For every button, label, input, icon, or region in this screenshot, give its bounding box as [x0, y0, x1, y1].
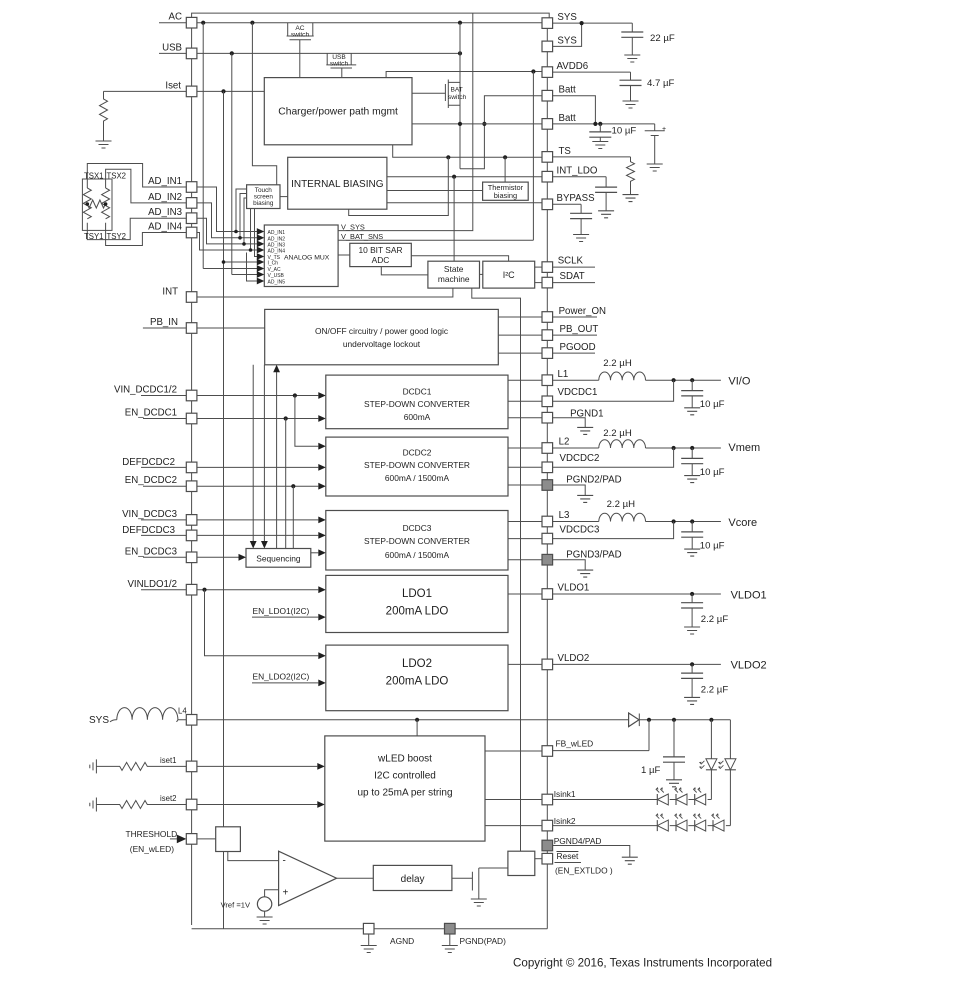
wire Vref to comparator plus: [265, 890, 279, 897]
node L1a: [672, 378, 676, 382]
transistor BAT switch: [412, 23, 460, 169]
node batt2: [598, 122, 602, 126]
svg-text:Charger/power path mgmt: Charger/power path mgmt: [278, 107, 398, 118]
wire TS net from charger: [393, 145, 542, 158]
node vin12: [293, 393, 297, 397]
svg-text:STEP-DOWN CONVERTER: STEP-DOWN CONVERTER: [364, 460, 470, 470]
wire THRESHOLD to box: [197, 838, 216, 840]
pin PGND2/PAD: [542, 480, 553, 491]
capacitor 22uF: [631, 23, 633, 32]
wire DCDC3 to VDCDC3: [508, 538, 542, 540]
svg-text:SDAT: SDAT: [560, 271, 585, 282]
wire boost rail: [639, 719, 730, 721]
svg-text:AD_IN2: AD_IN2: [268, 236, 286, 242]
wire PB_OUT: [498, 334, 597, 336]
wire wLED to Isink1 pin: [485, 799, 542, 801]
svg-text:USB: USB: [162, 42, 182, 53]
svg-text:machine: machine: [438, 274, 470, 284]
inductor L1: [599, 372, 646, 380]
LED S1c: [693, 787, 706, 805]
wire SYS out: [553, 23, 633, 46]
pin Iset: [186, 86, 197, 97]
svg-text:Sequencing: Sequencing: [256, 554, 301, 564]
svg-text:2.2 µH: 2.2 µH: [607, 499, 636, 510]
wire PGND2 out: [553, 485, 586, 495]
wire L4 to diode: [178, 719, 629, 721]
box state machine: [428, 261, 480, 288]
capacitor 2.2uF ldo1: [691, 594, 693, 603]
svg-text:STEP-DOWN CONVERTER: STEP-DOWN CONVERTER: [364, 399, 470, 409]
ground iset2 ext: [90, 798, 97, 812]
svg-text:EN_DCDC3: EN_DCDC3: [125, 546, 177, 557]
ground Iset: [96, 141, 112, 148]
svg-text:Vmem: Vmem: [728, 442, 760, 454]
wire TS to internal biasing: [349, 157, 449, 215]
wire I2C to SCLK: [535, 266, 542, 268]
wire LDO2 to VLDO2: [508, 663, 542, 665]
node AC-203: [201, 21, 205, 25]
wire AC net: [159, 22, 542, 24]
wire PGND1 out: [553, 418, 586, 428]
svg-text:VIN_DCDC3: VIN_DCDC3: [122, 509, 177, 520]
pin PB_OUT: [542, 330, 553, 341]
svg-text:AGND: AGND: [390, 936, 414, 946]
wire EN_DCDC2 to seq: [292, 486, 294, 548]
wire touch biasing link: [280, 196, 288, 198]
svg-text:PB_OUT: PB_OUT: [560, 324, 599, 335]
wire EN_DCDC1 to seq: [285, 419, 287, 549]
node USB-460: [458, 51, 462, 55]
wire seq vert a: [252, 365, 254, 544]
wire BYPASS out: [553, 203, 582, 205]
battery cell: [645, 124, 665, 164]
svg-text:I²C: I²C: [503, 270, 515, 280]
pin INT: [186, 292, 197, 303]
pin FB_wLED: [542, 746, 553, 757]
svg-text:VDCDC2: VDCDC2: [560, 453, 600, 464]
box LDO2: [326, 645, 508, 711]
wire EN_DCDC2: [143, 485, 318, 487]
pin PGND3/PAD: [542, 554, 553, 565]
svg-text:PGND2/PAD: PGND2/PAD: [566, 475, 621, 486]
wire L2 out: [553, 447, 599, 449]
transistor AC switch: [287, 23, 314, 78]
node d1: [709, 718, 713, 722]
inductor L4: [110, 708, 178, 722]
wire biasing to BYPASS: [387, 202, 542, 204]
ground Q1: [471, 899, 487, 906]
pin TS: [542, 152, 553, 163]
capacitor 10uF dcdc3: [691, 522, 693, 532]
wire buffer to comparator minus: [228, 852, 279, 861]
wire DEFDCDC2: [141, 466, 318, 468]
pin VINLDO12: [186, 584, 197, 595]
wire VIN_DCDC3: [141, 519, 318, 521]
capacitor 1uF: [673, 720, 675, 757]
svg-text:SYS: SYS: [557, 12, 577, 23]
svg-text:PGND(PAD): PGND(PAD): [460, 936, 507, 946]
wire touch bias tap4: [250, 209, 252, 251]
wire FB_wLED: [553, 720, 649, 751]
wire Batt out: [553, 96, 655, 124]
wire VDCDC1 fb: [553, 380, 674, 401]
node touch-right: [104, 202, 108, 206]
capacitor 10uF batt: [599, 124, 601, 132]
wire biasing to INT_LDO: [387, 176, 542, 178]
wire DCDC1 to PGND1: [508, 417, 542, 419]
svg-text:BYPASS: BYPASS: [557, 193, 596, 204]
wire I2C to SDAT: [535, 282, 542, 284]
pin DEFDCDC3: [186, 530, 197, 541]
svg-text:600mA / 1500mA: 600mA / 1500mA: [385, 550, 450, 560]
svg-text:Iset: Iset: [165, 80, 181, 91]
wire V_AC vertical: [202, 23, 204, 269]
wire mux to ADC: [338, 254, 350, 256]
capacitor 10uF dcdc1: [691, 380, 693, 390]
node L3a: [672, 519, 676, 523]
svg-text:Copyright © 2016, Texas Instru: Copyright © 2016, Texas Instruments Inco…: [513, 957, 772, 970]
pin SYS2: [542, 41, 553, 52]
pin AC: [186, 17, 197, 28]
svg-text:I_Ch: I_Ch: [268, 261, 279, 267]
svg-text:-: -: [283, 856, 286, 867]
capacitor INT_LDO: [605, 177, 607, 187]
wire thermistor drop: [504, 157, 506, 182]
wire PGND4 out: [553, 846, 630, 858]
svg-text:VLDO2: VLDO2: [731, 660, 767, 672]
transistor Q1: [472, 868, 508, 899]
wire VDCDC2 fb: [553, 448, 674, 467]
pin AD_IN2: [186, 198, 197, 209]
pin Batt1: [542, 90, 553, 101]
svg-text:L2: L2: [559, 436, 570, 447]
pin EN_DCDC3: [186, 552, 197, 563]
svg-text:AD_IN4: AD_IN4: [148, 222, 183, 233]
svg-text:I2C controlled: I2C controlled: [374, 771, 436, 782]
pin Reset: [542, 853, 553, 864]
wire L4 to wLED box: [416, 720, 418, 736]
svg-text:BAT: BAT: [451, 87, 463, 94]
pin PGOOD: [542, 348, 553, 359]
svg-text:PGND3/PAD: PGND3/PAD: [566, 549, 621, 560]
pin VDCDC3: [542, 533, 553, 544]
svg-text:1 µF: 1 µF: [641, 765, 661, 776]
pin AD_IN3: [186, 213, 197, 224]
node L2b: [690, 446, 694, 450]
svg-text:Vcore: Vcore: [728, 517, 757, 529]
svg-text:VLDO2: VLDO2: [558, 653, 590, 664]
wire Isink1 row: [553, 799, 712, 801]
svg-text:Batt: Batt: [559, 85, 577, 96]
svg-text:SCLK: SCLK: [558, 256, 584, 267]
svg-text:10 µF: 10 µF: [700, 399, 725, 410]
pin Power_ON: [542, 312, 553, 323]
wire V_BAT_SNS vertical: [532, 72, 534, 241]
svg-text:200mA LDO: 200mA LDO: [386, 606, 449, 618]
pin EN_DCDC2: [186, 481, 197, 492]
wire sequencing out to DCDC3: [311, 552, 319, 554]
svg-text:Isink2: Isink2: [554, 816, 576, 826]
svg-text:ON/OFF circuitry / power good: ON/OFF circuitry / power good logic: [315, 326, 448, 336]
wire I_Ch bus vertical: [223, 91, 225, 928]
node tb3: [242, 242, 246, 246]
svg-text:Batt: Batt: [559, 113, 577, 124]
resistor touch horizontal: [87, 200, 105, 208]
pin INT_LDO: [542, 171, 553, 182]
svg-text:undervoltage lockout: undervoltage lockout: [343, 339, 421, 349]
pin L2: [542, 443, 553, 454]
svg-text:up to 25mA per string: up to 25mA per string: [357, 788, 452, 799]
svg-text:biasing: biasing: [494, 191, 517, 200]
ground Vref: [264, 911, 266, 917]
node SYS ext: [580, 21, 584, 25]
pin PGND(PAD): [445, 923, 456, 934]
svg-text:LDO2: LDO2: [402, 658, 432, 670]
svg-text:AVDD6: AVDD6: [557, 61, 589, 72]
wire EN_LDO2: [252, 682, 318, 684]
node tb2: [238, 236, 242, 240]
wire VIN_DCDC1/2: [141, 395, 318, 397]
wire VINLDO to LDO2: [205, 590, 319, 656]
wire DCDC1 to VDCDC1: [508, 400, 542, 402]
svg-text:Vref =1V: Vref =1V: [221, 901, 251, 910]
wire DEFDCDC3: [141, 534, 318, 536]
wire TSX2 to AD_IN2: [106, 169, 187, 203]
pin VIN_DCDC12: [186, 390, 197, 401]
svg-text:AD_IN1: AD_IN1: [148, 176, 182, 187]
capacitor 4.7uF: [630, 72, 632, 80]
wire L3 out: [553, 521, 599, 523]
wire Batt2 net: [412, 123, 542, 125]
svg-text:VI/O: VI/O: [728, 376, 750, 388]
box 10 BIT SAR ADC: [350, 243, 412, 266]
wire V_BAT_SNS: [338, 239, 533, 241]
resistor iset2: [96, 801, 186, 809]
box Touch screen biasing: [247, 185, 280, 209]
wire seq vert b: [263, 365, 265, 544]
pin SYS1: [542, 18, 553, 29]
wire iset1 to wLED: [197, 765, 317, 767]
svg-text:switch: switch: [291, 31, 310, 38]
wire L2 to Vmem: [646, 447, 721, 449]
wire Batt1 net: [460, 96, 542, 169]
pin BYPASS: [542, 199, 553, 210]
svg-text:DCDC2: DCDC2: [403, 448, 432, 458]
svg-text:TSX2: TSX2: [107, 171, 127, 180]
svg-text:THRESHOLD: THRESHOLD: [126, 829, 178, 839]
box ON/OFF circuitry: [265, 309, 499, 364]
svg-text:SYS: SYS: [557, 35, 577, 46]
svg-text:2.2 µF: 2.2 µF: [701, 684, 729, 695]
wire EN_LDO1: [252, 616, 318, 618]
wire DCDC3 to L3: [508, 521, 542, 523]
wire VIN to DCDC2: [295, 396, 318, 447]
resistor iset1: [96, 762, 186, 770]
box DCDC1: [326, 375, 508, 429]
node c1u: [672, 718, 676, 722]
box delay: [373, 865, 452, 890]
svg-text:+: +: [283, 888, 289, 899]
svg-text:2.2 µH: 2.2 µH: [603, 358, 632, 369]
svg-text:V_BAT_SNS: V_BAT_SNS: [341, 232, 383, 241]
wire iset2 to wLED: [197, 804, 317, 806]
wire Isink2 row: [553, 825, 731, 827]
wire VDCDC3 fb: [553, 522, 674, 539]
svg-text:Reset: Reset: [557, 851, 580, 861]
box Sequencing: [246, 549, 311, 568]
box DCDC3: [326, 511, 508, 571]
svg-text:AD_IN5: AD_IN5: [268, 280, 286, 286]
wire V_AC feed: [203, 268, 257, 270]
wire TSY1 to AD_IN3: [87, 218, 186, 239]
svg-text:PGND4/PAD: PGND4/PAD: [554, 836, 602, 846]
svg-text:switch: switch: [330, 61, 349, 68]
pin PB_IN: [186, 323, 197, 334]
wire USB net: [159, 52, 460, 54]
wire AD_IN3 to mux: [197, 218, 257, 244]
wire state machine to reset logic: [472, 288, 521, 851]
pin AD_IN1: [186, 182, 197, 193]
wire DCDC2 to VDCDC2: [508, 466, 542, 468]
box reset buffer: [508, 851, 535, 875]
pin iset2: [186, 799, 197, 810]
pin EN_DCDC1: [186, 413, 197, 424]
node vldo1: [690, 592, 694, 596]
svg-text:V_USB: V_USB: [268, 273, 285, 279]
svg-text:2.2 µF: 2.2 µF: [701, 614, 729, 625]
box DCDC2: [326, 437, 508, 496]
wire PGOOD: [498, 352, 595, 354]
LED D1: [710, 720, 712, 759]
resistor TS thermistor: [627, 157, 635, 195]
pin AVDD6: [542, 67, 553, 78]
svg-text:TSY1: TSY1: [84, 232, 104, 241]
svg-text:LDO1: LDO1: [402, 588, 432, 600]
pin VLDO2: [542, 659, 553, 670]
svg-text:22 µF: 22 µF: [650, 33, 675, 44]
svg-text:SYS: SYS: [89, 715, 109, 726]
node ICh: [222, 260, 226, 264]
node TS-448: [446, 155, 450, 159]
wire state machine feed vertical: [453, 177, 455, 262]
pin VLDO1: [542, 589, 553, 600]
wire EN_DCDC3: [143, 556, 239, 558]
LED S1b: [675, 787, 688, 805]
wire TS out: [553, 156, 631, 158]
node en1: [284, 416, 288, 420]
svg-text:EN_LDO1(I2C): EN_LDO1(I2C): [253, 606, 310, 616]
svg-text:10 BIT SAR: 10 BIT SAR: [358, 245, 402, 255]
pin USB: [186, 48, 197, 59]
wire state to I2C: [480, 273, 483, 275]
svg-text:ADC: ADC: [372, 255, 390, 265]
wire DCDC1 to L1: [508, 379, 542, 381]
pin arrows into mux: [257, 228, 265, 235]
svg-text:switch: switch: [448, 94, 467, 101]
ground PGND(PAD): [449, 934, 451, 946]
svg-text:VDCDC3: VDCDC3: [560, 524, 600, 535]
node AVDD6-533: [531, 69, 535, 73]
wire ADC to I2C: [411, 256, 508, 262]
wire V_TS feed: [255, 209, 258, 257]
svg-text:PGND1: PGND1: [570, 408, 603, 419]
wire Iset net: [104, 90, 265, 92]
LED S2d: [712, 813, 725, 831]
node vldo2: [690, 662, 694, 666]
pin Isink1: [542, 794, 553, 805]
svg-text:AD_IN3: AD_IN3: [268, 242, 286, 248]
svg-text:V_SYS: V_SYS: [341, 222, 365, 231]
svg-text:AD_IN1: AD_IN1: [268, 230, 286, 236]
wire L3 to Vcore: [646, 521, 721, 523]
inductor L3: [599, 513, 646, 521]
pin PGND1: [542, 412, 553, 423]
diode D3 boost: [629, 713, 639, 727]
node Batt-460: [458, 122, 462, 126]
svg-text:Power_ON: Power_ON: [559, 306, 606, 317]
wire AVDD6 out: [553, 71, 631, 73]
pin iset1: [186, 761, 197, 772]
svg-text:10 µF: 10 µF: [700, 540, 725, 551]
svg-text:VDCDC1: VDCDC1: [558, 387, 598, 398]
node L2a: [672, 446, 676, 450]
svg-text:ANALOG MUX: ANALOG MUX: [284, 255, 330, 262]
wire DCDC3 to PGND3: [508, 559, 542, 561]
LED S2a: [656, 813, 669, 831]
svg-text:600mA: 600mA: [404, 412, 431, 422]
touch screen outline box: [82, 179, 112, 230]
wire TSX1 to AD_IN1: [87, 164, 186, 189]
node fb: [647, 718, 651, 722]
pin L1: [542, 375, 553, 386]
node touch-left: [86, 202, 90, 206]
pin Batt2: [542, 119, 553, 130]
pin THRESHOLD: [186, 834, 197, 845]
box Thermistor biasing: [483, 182, 529, 200]
wire DCDC2 to L2: [508, 447, 542, 449]
svg-text:(EN_wLED): (EN_wLED): [130, 844, 174, 854]
wire L1 out: [553, 379, 599, 381]
IC bottom boundary: [192, 928, 548, 930]
svg-text:DCDC1: DCDC1: [403, 387, 432, 397]
svg-text:VLDO1: VLDO1: [731, 589, 767, 601]
svg-text:AD_IN4: AD_IN4: [268, 249, 286, 255]
wire Power_ON: [498, 316, 597, 318]
pin PGND4/PAD: [542, 840, 553, 851]
svg-text:INT: INT: [162, 287, 178, 298]
box INTERNAL BIASING: [288, 157, 387, 209]
svg-text:STEP-DOWN CONVERTER: STEP-DOWN CONVERTER: [364, 536, 470, 546]
svg-text:biasing: biasing: [253, 200, 274, 207]
svg-text:10 µF: 10 µF: [612, 126, 637, 137]
pin L4: [186, 715, 197, 726]
LED S2c: [693, 813, 706, 831]
node tb1: [234, 230, 238, 234]
wire DCDC2 to PGND2: [508, 484, 542, 486]
box charger/power path mgmt: [264, 78, 412, 145]
pin VDCDC1: [542, 396, 553, 407]
wire V_USB feed: [232, 274, 257, 276]
capacitor BYPASS: [580, 204, 582, 213]
LED S1a: [656, 787, 669, 805]
wire V_SYS: [338, 13, 473, 231]
capacitor 2.2uF ldo2: [691, 664, 693, 673]
wire delay to gate: [452, 877, 473, 879]
wire L1 to VIO: [646, 379, 721, 381]
LED S2b: [675, 813, 688, 831]
source Vref: [257, 897, 271, 911]
IC left boundary: [191, 27, 193, 925]
